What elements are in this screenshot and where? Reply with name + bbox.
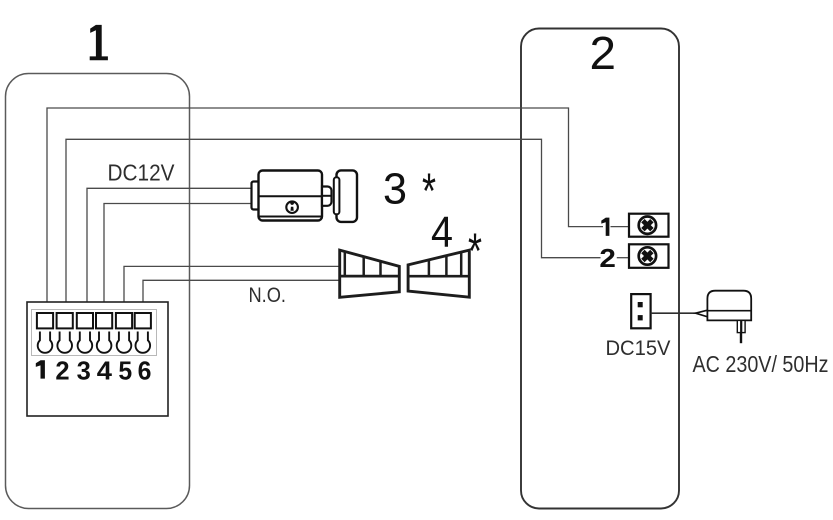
screw terminal 2 screw head <box>639 247 656 264</box>
lock L3: strike bar <box>334 177 340 214</box>
terminal block inner strip <box>32 310 157 356</box>
terminal square 5 <box>116 313 132 328</box>
wire terminal6 to door release N.O. (lower) <box>143 280 339 313</box>
plug tip <box>696 310 708 317</box>
keyhole contact 6 <box>135 332 150 353</box>
terminal block outer box <box>27 302 168 416</box>
screw terminal 2 box <box>629 244 669 267</box>
wire terminal4 to lock (lower) <box>104 204 252 314</box>
screw terminal 1 cross <box>643 221 652 230</box>
lock L3: latch <box>322 187 332 206</box>
horn left: divider <box>340 275 400 278</box>
keyhole contact 4 <box>97 332 112 353</box>
terminal square 1 <box>37 313 53 328</box>
adapter prong right <box>742 320 746 332</box>
wire terminal1 to screw terminal 1 <box>47 108 603 313</box>
horn left: rib 3 <box>379 261 382 276</box>
svg-text:N.O.: N.O. <box>249 282 287 307</box>
svg-text:4: 4 <box>431 208 453 257</box>
wire segment right of label 2 <box>617 257 629 259</box>
wire socket to adapter <box>651 312 696 314</box>
svg-text:2: 2 <box>590 27 617 79</box>
socket pin lower <box>638 315 643 320</box>
svg-text:6: 6 <box>138 357 152 385</box>
lock L3: seam upper <box>259 195 322 197</box>
wire segment right of label 1 <box>611 226 630 228</box>
svg-text:DC15V: DC15V <box>606 336 672 360</box>
terminal number 1 <box>36 360 45 378</box>
label 1 (device 1) <box>90 25 108 60</box>
screw terminal 1 label <box>601 218 609 236</box>
DC15V socket <box>631 294 650 328</box>
horn right: rib 2 <box>445 256 448 277</box>
lock L3: latch mid line <box>322 195 332 197</box>
horn right: divider <box>408 275 469 278</box>
svg-text:DC12V: DC12V <box>108 159 176 185</box>
socket pin upper <box>638 302 643 307</box>
svg-text:5: 5 <box>118 357 132 385</box>
horn left: rib 2 <box>362 257 365 277</box>
keyhole contact 1 <box>38 332 53 353</box>
power adapter body <box>707 291 751 321</box>
wire terminal3 to lock (upper) <box>87 188 252 313</box>
lock L3: left tab <box>252 182 261 210</box>
device 2 (indoor monitor) outline <box>521 29 679 509</box>
lock L3: key cylinder <box>286 201 298 213</box>
horn left: rib 1 <box>344 252 347 277</box>
adapter pin <box>740 333 742 344</box>
adapter prong left <box>737 320 741 332</box>
door release horn left: outline <box>340 250 400 297</box>
screw terminal 1 box <box>629 214 669 237</box>
horn right: rib 1 <box>428 260 431 276</box>
svg-text:3: 3 <box>77 357 91 385</box>
keyhole contact 2 <box>57 332 72 353</box>
svg-text:3: 3 <box>383 165 407 214</box>
terminal square 3 <box>77 313 93 328</box>
terminal square 4 <box>96 313 112 328</box>
terminal square 6 <box>135 313 151 328</box>
svg-text:2: 2 <box>599 243 616 273</box>
lock L3: strike plate <box>337 170 358 222</box>
horn right: rib 3 <box>460 252 463 276</box>
svg-text:4: 4 <box>97 357 113 385</box>
door release horn right: outline <box>408 250 469 297</box>
keyhole contact 5 <box>117 332 132 353</box>
lock L3: keyhole <box>290 201 294 211</box>
power adapter seam <box>707 310 751 312</box>
keyhole contact 3 <box>78 332 93 353</box>
screw terminal 2 cross <box>643 252 652 261</box>
lock L3: body <box>259 171 323 221</box>
wire terminal5 to door release (upper) <box>124 266 339 313</box>
wire terminal2 to screw terminal 2 <box>66 139 601 313</box>
terminal square 2 <box>57 313 73 328</box>
svg-text:AC 230V/ 50Hz: AC 230V/ 50Hz <box>693 351 829 377</box>
svg-text:2: 2 <box>55 357 69 385</box>
screw terminal 1 screw head <box>639 217 656 234</box>
lock L3: seam lower <box>259 216 322 218</box>
device 1 (outdoor station) outline <box>6 74 190 509</box>
